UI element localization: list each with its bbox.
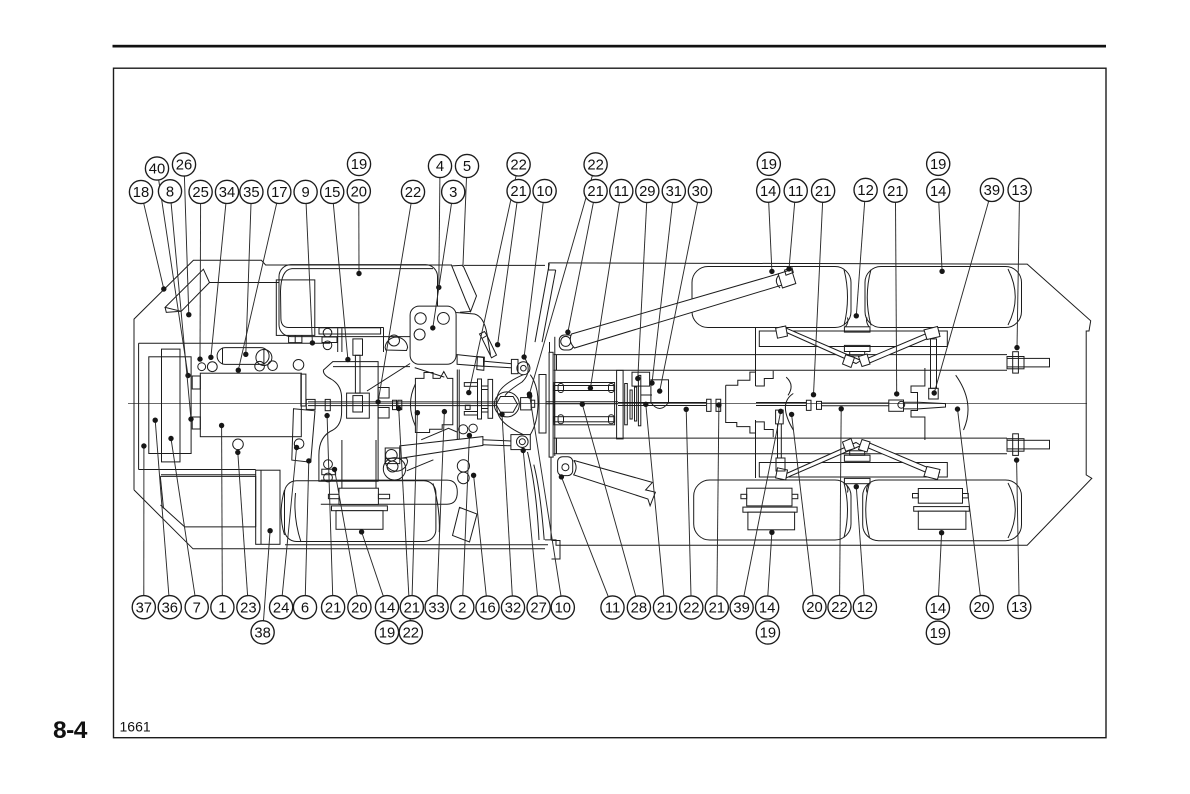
trans bracket bottom circle 2 <box>324 473 333 482</box>
stub axle bottom block <box>1007 439 1024 452</box>
front body top edge right <box>464 264 545 266</box>
pivot hex circle <box>494 392 519 417</box>
leader line 28 <box>582 404 636 596</box>
u-joint mid <box>707 399 721 411</box>
callout 36 <box>158 596 181 619</box>
callout 39 <box>980 178 1003 201</box>
trans top mount plates <box>338 328 342 352</box>
stub axle top block <box>1007 357 1024 369</box>
leader line 12 <box>856 202 864 316</box>
front axle housing <box>415 372 452 433</box>
svg-text:4: 4 <box>436 159 444 175</box>
stabilizer bar top-left <box>778 327 862 364</box>
pack through shaft <box>546 402 618 404</box>
hydraulic hose <box>367 364 410 392</box>
oil pan parallelogram <box>292 409 315 463</box>
callout 31 <box>662 179 685 202</box>
svg-text:14: 14 <box>760 184 776 200</box>
pack stud 4 <box>609 415 614 424</box>
callout 12 <box>853 595 876 618</box>
leader line 1 <box>221 426 224 596</box>
disc 2 <box>630 390 632 419</box>
disc 4 <box>638 375 640 425</box>
lower panel circles a <box>457 460 469 472</box>
leader line 30 <box>660 202 698 391</box>
hood outline <box>279 265 438 337</box>
callout 11 <box>784 179 807 202</box>
bell curve lower right <box>534 465 544 540</box>
lift tube end arc <box>776 276 780 289</box>
leader line 2 <box>463 436 470 596</box>
leader line 34 <box>211 203 226 357</box>
wall foot bracket <box>552 541 561 560</box>
pump block <box>347 393 370 418</box>
svg-text:19: 19 <box>351 157 367 173</box>
callout 21 <box>884 179 907 202</box>
callout 24 <box>270 596 293 619</box>
leader line 27 <box>523 451 537 597</box>
stabilizer bar top-right <box>863 329 940 365</box>
leader line 20 <box>335 469 358 595</box>
svg-text:20: 20 <box>351 600 367 616</box>
leader line 35 <box>246 204 251 355</box>
trans bracket bottom <box>322 469 336 475</box>
rear front wall slant a <box>535 264 549 343</box>
callout 23 <box>237 596 260 619</box>
shaft coupler right <box>889 400 904 411</box>
leader line 37 <box>143 446 145 596</box>
leader line 22 <box>529 176 592 395</box>
callout 19 <box>375 621 398 644</box>
callout 2 <box>451 596 474 619</box>
clevis upper <box>511 359 518 373</box>
callout 32 <box>501 596 524 619</box>
svg-text:29: 29 <box>639 184 655 200</box>
leader line 8 <box>171 203 191 419</box>
callout 21 <box>400 596 423 619</box>
svg-text:14: 14 <box>930 601 946 617</box>
transmission notch 1 <box>378 388 389 399</box>
svg-text:17: 17 <box>271 185 287 201</box>
leader line 39 <box>934 201 989 393</box>
engine left tab 2 <box>192 417 200 429</box>
stabilizer bar bottom-right <box>863 442 940 478</box>
svg-text:32: 32 <box>505 601 521 617</box>
callout 20 <box>347 180 370 203</box>
lift pivot bracket bottom <box>558 457 573 476</box>
radiator rect A <box>149 357 191 454</box>
lower panel circles b <box>458 472 470 484</box>
svg-text:38: 38 <box>254 625 270 641</box>
svg-text:14: 14 <box>379 600 395 616</box>
hood inner line <box>281 269 434 352</box>
callout 20 <box>970 595 993 618</box>
flange tab 4 <box>482 409 489 413</box>
diff bulge right <box>956 375 968 430</box>
svg-text:31: 31 <box>666 184 682 200</box>
svg-text:21: 21 <box>657 601 673 617</box>
rear wheel BR inner arc <box>866 483 870 538</box>
disc 1 <box>625 384 628 425</box>
leader line 20 <box>792 414 814 595</box>
rear wheel TR inner arc <box>867 270 871 326</box>
svg-text:19: 19 <box>761 157 777 173</box>
disc tick <box>641 394 652 396</box>
svg-text:10: 10 <box>555 601 571 617</box>
svg-text:22: 22 <box>831 600 847 616</box>
cowl edge <box>210 282 280 284</box>
pitman bracket <box>911 368 925 440</box>
leader line 7 <box>171 439 195 596</box>
callout 19 <box>927 152 950 175</box>
stabilizer cap apex-right-b <box>859 440 871 453</box>
wishbone left curves <box>497 375 524 435</box>
leader line 20 <box>358 203 360 274</box>
leader line 13 <box>1017 202 1019 348</box>
diff nose arc <box>785 377 793 430</box>
svg-text:21: 21 <box>404 600 420 616</box>
rear wheel bottom-right <box>863 480 1022 541</box>
kingpin flange B <box>488 379 493 418</box>
steering cylinder upper <box>457 355 483 367</box>
svg-text:13: 13 <box>1011 600 1027 616</box>
callout 39 <box>730 596 753 619</box>
clevis lower <box>511 435 530 450</box>
callout 35 <box>240 180 263 203</box>
air intake circle <box>256 350 272 366</box>
clevis lower circle inner <box>519 439 525 445</box>
callout 26 <box>172 153 195 176</box>
axle bulge circle <box>383 458 405 480</box>
callout 21 <box>322 596 345 619</box>
radiator rect B <box>162 349 181 462</box>
rear frame rail top <box>554 355 1007 371</box>
fuel tank <box>160 476 255 527</box>
hub flare bottom <box>846 484 870 493</box>
callout 14 <box>927 179 950 202</box>
tie rod upper <box>415 368 445 378</box>
callout 13 <box>1008 178 1031 201</box>
svg-text:12: 12 <box>857 600 873 616</box>
leader line 15 <box>333 203 348 359</box>
leader line 11 <box>590 203 619 389</box>
leader line 29 <box>638 203 647 379</box>
leader line 14 <box>768 532 772 596</box>
hub bracket top <box>844 345 870 351</box>
front u-joint <box>393 400 402 409</box>
callout 25 <box>189 180 212 203</box>
svg-text:10: 10 <box>536 184 552 200</box>
leader line 21 <box>814 202 823 394</box>
svg-text:18: 18 <box>133 185 149 201</box>
pack plate 1 <box>617 370 624 439</box>
callout 37 <box>132 596 155 619</box>
axle pack top bar <box>554 386 615 391</box>
callout 14 <box>756 596 779 619</box>
rear wheel BL inner arc <box>844 483 848 538</box>
callout 17 <box>268 180 291 203</box>
leader line 26 <box>184 176 188 315</box>
rear driveshaft 1 <box>618 403 706 406</box>
steering rod lower <box>483 440 511 446</box>
rear outer contour <box>545 263 1092 545</box>
page frame <box>114 68 1107 738</box>
callout 15 <box>321 180 344 203</box>
front brake drum flange <box>339 488 378 504</box>
rear drum left body <box>748 512 795 530</box>
callout 4 <box>428 154 451 177</box>
hydraulic valve block <box>410 306 456 364</box>
engine top circle d <box>268 361 278 371</box>
kingpin columns <box>457 370 459 441</box>
drag link <box>776 410 784 424</box>
svg-text:22: 22 <box>683 601 699 617</box>
pto pod bottom dome <box>385 458 408 471</box>
front wheel inner slant <box>295 493 301 542</box>
leader line 25 <box>199 204 202 360</box>
muffler tab <box>460 311 471 314</box>
body S-curve right <box>505 358 528 396</box>
svg-text:40: 40 <box>149 162 165 178</box>
hub bracket bottom small <box>850 451 865 455</box>
clevis upper circle inner <box>521 365 527 371</box>
leader line 11 <box>561 477 608 597</box>
svg-text:34: 34 <box>219 185 235 201</box>
svg-text:12: 12 <box>857 183 873 199</box>
callout 27 <box>527 596 550 619</box>
frame left thin vertical <box>554 337 556 456</box>
rear wheel top-left <box>692 267 851 328</box>
pod diagonal <box>407 460 434 471</box>
engine front circle <box>233 439 244 450</box>
wishbone right curves <box>530 375 538 435</box>
trans deck line <box>333 366 410 368</box>
svg-text:22: 22 <box>510 158 526 174</box>
rear wall slant outer <box>549 263 556 270</box>
rear drum left plate <box>743 507 797 512</box>
rear wheel bottom-right bulge <box>1008 483 1015 538</box>
pitman link <box>931 339 937 388</box>
leader line 16 <box>474 475 487 596</box>
leader line 22 <box>840 409 842 596</box>
trans top plate <box>319 328 381 334</box>
rear drum left tab r <box>792 494 798 498</box>
stabilizer cap top-left-end <box>776 326 788 338</box>
callout 21 <box>507 179 530 202</box>
valve port 1 <box>415 313 426 324</box>
leader line 10 <box>524 203 543 358</box>
lower slant step <box>453 507 478 542</box>
step plate inner <box>260 470 262 544</box>
trans bracket bottom circle 1 <box>324 460 333 469</box>
rear front wall slant b <box>542 270 556 342</box>
kingpin flange A <box>478 379 482 419</box>
leader line 10 <box>530 396 561 596</box>
stub axle top bar <box>1007 358 1050 367</box>
u-joint rear <box>806 400 821 410</box>
callout 14 <box>926 596 949 619</box>
callout 19 <box>926 621 949 644</box>
leader line 21 <box>646 404 664 596</box>
svg-text:16: 16 <box>479 601 495 617</box>
svg-text:39: 39 <box>984 183 1000 199</box>
callout 21 <box>705 596 728 619</box>
svg-text:14: 14 <box>759 601 775 617</box>
front bottom extra edge <box>285 544 548 546</box>
callout 21 <box>812 179 835 202</box>
leader line 21 <box>896 202 897 394</box>
svg-text:26: 26 <box>176 158 192 174</box>
callout 22 <box>584 153 607 176</box>
callout 22 <box>680 596 703 619</box>
leader line 22 <box>469 176 516 393</box>
tie rod lower <box>421 428 457 440</box>
steering rod upper <box>484 361 511 368</box>
leader line 17 <box>238 203 276 370</box>
svg-text:7: 7 <box>193 600 201 616</box>
svg-text:39: 39 <box>733 601 749 617</box>
svg-text:19: 19 <box>930 157 946 173</box>
rear drum right body <box>918 511 966 529</box>
svg-text:30: 30 <box>692 184 708 200</box>
pitman link foot <box>929 388 939 399</box>
stabilizer channel bottom <box>759 463 947 478</box>
leader line 31 <box>652 203 673 384</box>
stabilizer cap bottom-right-end <box>924 467 940 480</box>
callout 6 <box>293 596 316 619</box>
leader line 13 <box>1017 460 1019 595</box>
svg-text:2: 2 <box>458 600 466 616</box>
engine top circle a <box>198 363 206 371</box>
lift pivot bracket top <box>559 335 573 350</box>
leader line 21 <box>412 413 417 596</box>
callout 19 <box>347 152 370 175</box>
coupler circle <box>898 401 905 408</box>
bell curve lower right 2 <box>528 452 540 540</box>
hood right edge lower <box>437 337 439 365</box>
leader line 6 <box>305 461 309 596</box>
fuel tank top inner <box>161 474 256 476</box>
svg-text:22: 22 <box>403 625 419 641</box>
rear drum left flange <box>747 488 792 506</box>
flange tab 1 <box>464 383 477 387</box>
transmission housing <box>319 362 378 482</box>
svg-text:24: 24 <box>273 600 289 616</box>
callout 29 <box>636 179 659 202</box>
callout 22 <box>401 180 424 203</box>
svg-text:1: 1 <box>218 600 226 616</box>
svg-text:6: 6 <box>301 600 309 616</box>
callout 7 <box>185 596 208 619</box>
engine top circle c <box>255 361 265 371</box>
flange tab 2 <box>464 412 477 416</box>
svg-text:14: 14 <box>930 184 946 200</box>
callout 40 <box>145 157 168 180</box>
stub axle bottom vertical <box>1013 434 1019 456</box>
front drum tab right <box>378 494 389 498</box>
svg-text:3: 3 <box>449 185 457 201</box>
lift pivot circle bottom <box>562 464 569 471</box>
engine top circle b <box>207 362 217 372</box>
front shaft collar <box>325 399 330 410</box>
leader line 11 <box>789 202 795 269</box>
svg-text:35: 35 <box>243 185 259 201</box>
pivot block right <box>521 398 532 410</box>
shift shaft <box>355 355 360 393</box>
rear drum right tab l <box>913 494 919 498</box>
leader line 22 <box>378 203 411 402</box>
callout 19 <box>756 621 779 644</box>
callout 20 <box>803 595 826 618</box>
callout 30 <box>688 179 711 202</box>
top rule <box>113 45 1107 48</box>
leader line 38 <box>264 531 271 621</box>
leader line 14 <box>939 533 942 596</box>
svg-text:15: 15 <box>324 185 340 201</box>
steering cylinder lower <box>400 437 483 459</box>
hub bracket top small <box>850 352 865 356</box>
trans bracket top circle 1 <box>323 328 332 337</box>
small circle pair top b <box>469 424 477 432</box>
pto pod top circle <box>389 335 400 346</box>
rear wheel bottom-left <box>694 480 851 540</box>
stabilizer cap apex-left-b <box>843 439 855 452</box>
lift arm lower <box>574 460 656 505</box>
stabilizer cap bottom-left-end <box>776 468 788 480</box>
trans bracket top circle 2 <box>323 341 332 350</box>
leader line 20 <box>958 409 981 595</box>
callout 11 <box>610 179 633 202</box>
axle pack bottom bar <box>554 417 615 422</box>
leader line 9 <box>306 204 312 343</box>
front chassis box <box>139 343 330 469</box>
pivot nub <box>531 400 535 407</box>
seat outer <box>276 280 315 336</box>
gear box bulge <box>651 403 669 409</box>
engine right flange <box>301 374 306 406</box>
svg-text:5: 5 <box>463 159 471 175</box>
callout 12 <box>854 178 877 201</box>
leader line 21 <box>717 405 719 596</box>
engine top circle e <box>293 360 304 371</box>
front wheel bottom <box>285 481 436 542</box>
callout 18 <box>129 180 152 203</box>
callout 20 <box>348 596 371 619</box>
callout 21 <box>584 179 607 202</box>
disc 3 <box>635 387 637 421</box>
callout 22 <box>399 621 422 644</box>
callout 11 <box>601 596 624 619</box>
leader line 21 <box>498 203 517 345</box>
stabilizer channel top <box>759 331 947 347</box>
pto stub plate <box>539 375 546 434</box>
svg-text:20: 20 <box>351 184 367 200</box>
callout 14 <box>757 179 780 202</box>
callout 21 <box>653 596 676 619</box>
leader line 3 <box>433 203 452 328</box>
svg-text:9: 9 <box>301 185 309 201</box>
svg-text:13: 13 <box>1011 183 1027 199</box>
pack stud 3 <box>558 415 563 424</box>
leader line 22 <box>399 409 411 621</box>
leader line 18 <box>144 203 164 289</box>
svg-text:36: 36 <box>162 600 178 616</box>
leader line 39 <box>744 411 781 596</box>
lift pivot circle top <box>561 336 571 346</box>
drag link rods <box>778 424 782 458</box>
callout 13 <box>1008 595 1031 618</box>
shaft taper <box>904 402 946 409</box>
